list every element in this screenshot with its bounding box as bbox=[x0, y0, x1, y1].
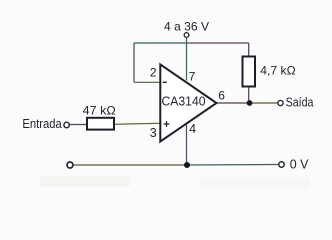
op-amp U1 CA3140 triangle bbox=[160, 64, 216, 141]
terminal: 0V right bbox=[279, 162, 284, 167]
svg-text:3: 3 bbox=[150, 126, 157, 140]
wire: top supply rail right segment bbox=[187, 42, 249, 44]
svg-text:0 V: 0 V bbox=[290, 156, 309, 171]
terminal: Entrada input bbox=[64, 122, 69, 127]
op-amp plus sign (pin 3 input) bbox=[164, 123, 170, 125]
terminal: +V supply bbox=[184, 33, 189, 38]
resistor R2 4.7 kOhm body bbox=[243, 57, 256, 87]
terminal: 0V left bbox=[67, 162, 73, 168]
svg-text:6: 6 bbox=[218, 89, 225, 103]
svg-text:Saída: Saída bbox=[286, 94, 315, 109]
svg-text:CA3140: CA3140 bbox=[162, 94, 206, 109]
junction dot at 0V rail / pin 4 bbox=[184, 162, 190, 168]
wire: top supply rail left segment bbox=[134, 42, 187, 44]
svg-text:2: 2 bbox=[150, 66, 157, 80]
svg-text:4 a 36 V: 4 a 36 V bbox=[164, 20, 209, 34]
svg-text:4,7 kΩ: 4,7 kΩ bbox=[260, 64, 295, 78]
terminal: Saida output bbox=[278, 100, 283, 105]
wire: supply terminal stub down to pin 7 bbox=[186, 38, 188, 81]
wire: R 4.7k bottom lead bbox=[248, 87, 250, 104]
wire: output pin 6 from apex to junction bbox=[217, 102, 250, 104]
wire: pin 2 horizontal bbox=[134, 81, 160, 83]
wire: R 4.7k top lead bbox=[248, 43, 250, 57]
svg-text:Entrada: Entrada bbox=[22, 116, 62, 131]
wire: feedback left vertical (pin2 to +V rail) bbox=[133, 43, 135, 82]
wire: 0V rail left segment bbox=[73, 164, 187, 166]
svg-text:4: 4 bbox=[189, 122, 196, 136]
wire: 0V rail right segment bbox=[187, 164, 279, 167]
wire: pin 4 down to 0V rail bbox=[186, 125, 188, 165]
junction dot at output node bbox=[247, 100, 253, 106]
wire: input from Entrada terminal to R 47k bbox=[69, 124, 87, 126]
svg-text:47 kΩ: 47 kΩ bbox=[83, 104, 116, 118]
wire: junction to Saida terminal bbox=[250, 102, 278, 104]
wire: from R 47k to pin 3 bbox=[114, 123, 160, 124]
resistor R1 47 kOhm body bbox=[87, 118, 114, 130]
paper noise patch bottom-right bbox=[200, 178, 310, 189]
paper noise patch bottom-left bbox=[40, 176, 130, 187]
op-amp minus sign (pin 2 input) bbox=[163, 81, 167, 83]
svg-text:7: 7 bbox=[189, 70, 196, 84]
